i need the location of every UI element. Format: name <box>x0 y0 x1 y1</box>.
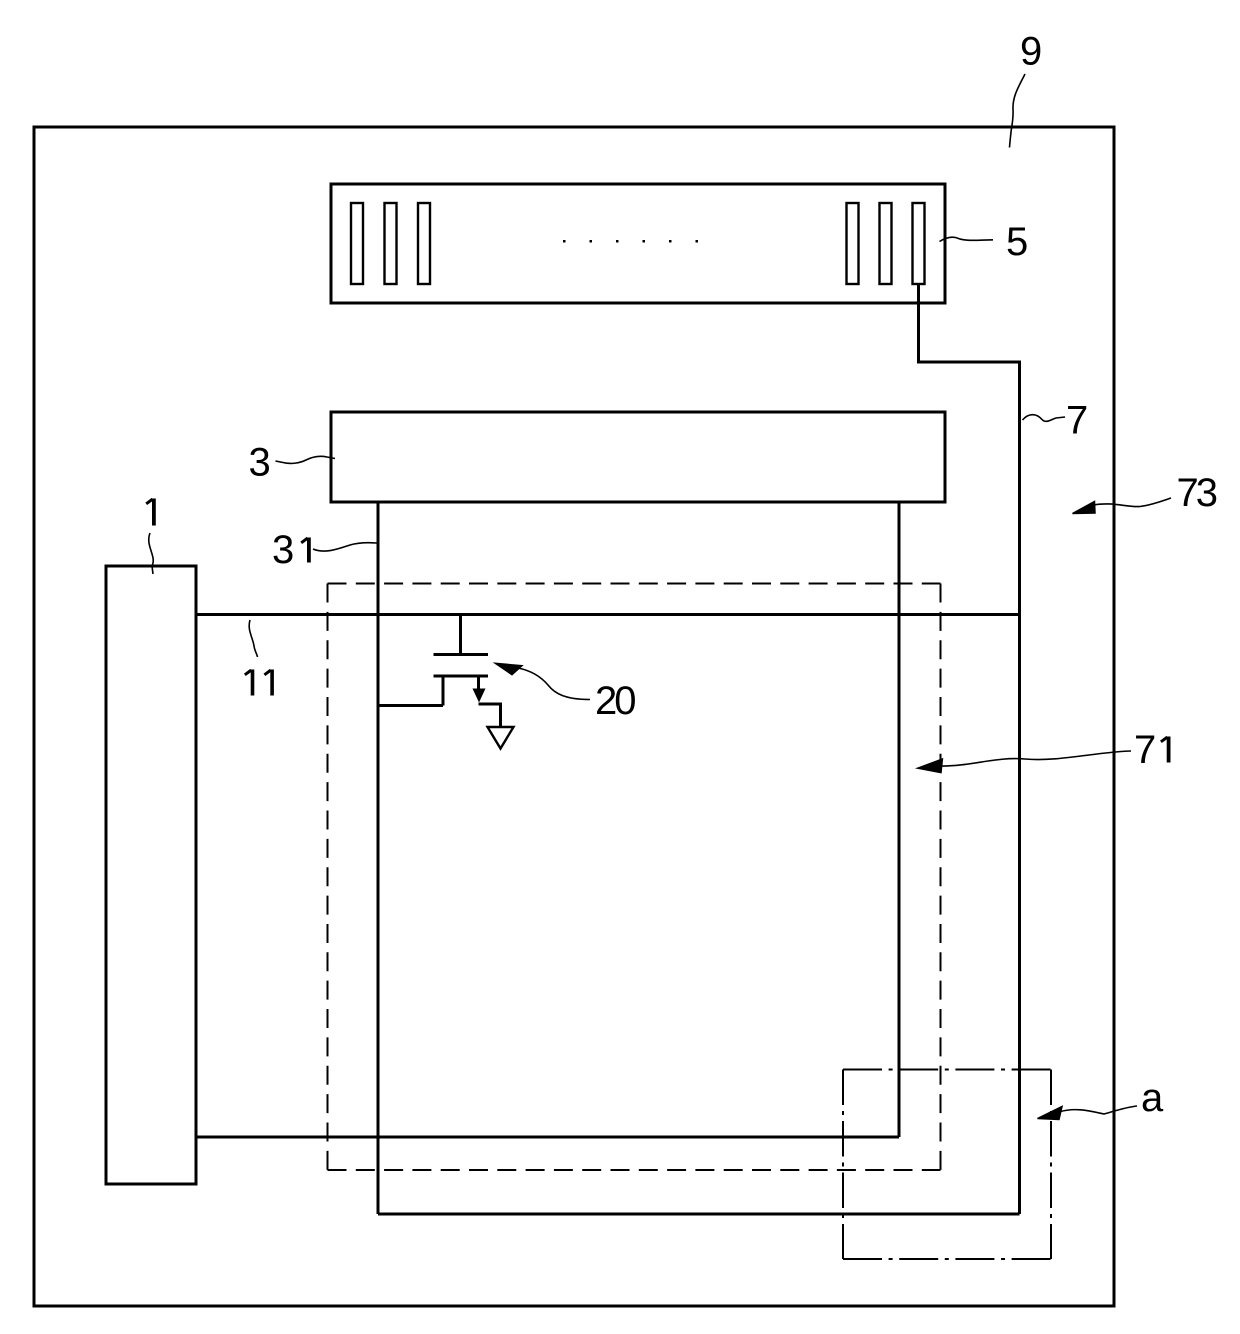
bar 4 in box 5 <box>847 203 859 284</box>
transistor 20 source stub <box>442 676 445 706</box>
leader for 9 <box>1010 74 1026 148</box>
dashed pixel region 71 <box>328 583 941 585</box>
svg-text:3: 3 <box>249 441 271 485</box>
gate line 11 <box>196 613 1020 616</box>
svg-text:73: 73 <box>1177 471 1217 515</box>
panel bottom wire <box>378 1213 1020 1216</box>
svg-text:5: 5 <box>1006 220 1028 264</box>
arrow for 71 <box>941 751 1131 766</box>
bar 6 in box 5 <box>913 203 925 284</box>
transistor 20 drain stub <box>477 676 480 699</box>
gate lead right <box>898 502 901 1137</box>
leader for 5 <box>940 237 994 241</box>
wire 7 from driver to panel <box>919 284 1020 1214</box>
transistor 20 gate bar <box>434 653 489 656</box>
gate line 2 <box>196 1136 899 1139</box>
leader for 7 <box>1023 415 1066 422</box>
scan driver box 1 <box>106 566 196 1184</box>
bar 5 in box 5 <box>880 203 892 284</box>
outer panel border 9 <box>34 127 1114 1306</box>
leader for 31 <box>313 543 377 551</box>
label 1 <box>152 499 156 526</box>
drain arrowhead <box>473 689 486 703</box>
gate lead 31 left <box>377 502 380 1214</box>
ground symbol <box>488 727 514 749</box>
arrow for 73 <box>1093 498 1171 507</box>
leader for 11 <box>249 620 257 657</box>
drain wire <box>479 704 501 727</box>
arrow for 20 <box>518 668 590 700</box>
svg-text:7: 7 <box>1066 399 1088 443</box>
svg-text:20: 20 <box>595 679 635 723</box>
transistor 20 gate stem <box>459 615 462 654</box>
arrow for a <box>1059 1106 1137 1114</box>
svg-text:a: a <box>1141 1076 1164 1120</box>
label 11 <box>251 670 255 696</box>
leader for 3 <box>276 456 336 463</box>
driver box 5 <box>331 184 945 303</box>
bar 1 in box 5 <box>351 203 363 284</box>
ellipsis dots in box 5 <box>563 240 698 243</box>
leader for 1 <box>149 533 153 574</box>
svg-text:9: 9 <box>1020 30 1042 74</box>
dash-dot region a <box>843 1069 1051 1071</box>
svg-text:7: 7 <box>1134 728 1156 772</box>
svg-text:3: 3 <box>272 528 294 572</box>
transistor 20 body bar <box>434 675 489 678</box>
bar 2 in box 5 <box>385 203 397 284</box>
source wire to gate lead <box>378 704 443 707</box>
gate driver box 3 <box>331 412 945 502</box>
bar 3 in box 5 <box>418 203 430 284</box>
